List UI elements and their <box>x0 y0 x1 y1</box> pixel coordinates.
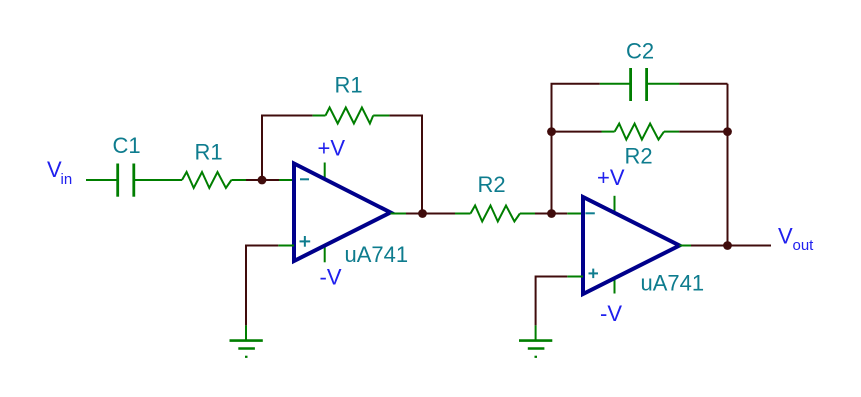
wire op1 output pin <box>391 213 407 215</box>
wire op2 non-inverting pin <box>567 276 583 278</box>
svg-text:R1: R1 <box>335 73 363 98</box>
wire R1fb right lead <box>373 115 389 117</box>
resistor R2 (feedback) <box>615 124 664 140</box>
op-amp U1 minus mark <box>300 178 309 180</box>
node D (left feedback junction at R2 row) <box>547 127 556 136</box>
wire R1fb left lead <box>313 115 326 117</box>
node E (right feedback junction at R2 row) <box>723 127 732 136</box>
ground 1 <box>230 341 263 357</box>
wire ground 2 pin stub <box>535 325 537 341</box>
wire feedback2 right riser down to output <box>727 84 729 246</box>
op-amp U2 triangle <box>583 197 680 294</box>
svg-text:out: out <box>793 237 815 254</box>
wire C2 right lead <box>647 83 680 85</box>
capacitor C2 <box>631 68 647 101</box>
wire op1 non-inverting pin <box>278 245 294 247</box>
resistor R1 (feedback) <box>326 108 374 124</box>
wire feedback left riser and top run <box>262 116 313 181</box>
op-amp U2 minus mark <box>585 212 594 214</box>
svg-text:C2: C2 <box>626 39 654 64</box>
op-amp U1 -V pin stub <box>324 246 326 262</box>
wire op2 non-inverting to ground riser <box>536 277 568 326</box>
svg-text:+V: +V <box>597 165 625 190</box>
svg-text:+V: +V <box>318 136 346 161</box>
op-amp U1 triangle <box>294 164 391 262</box>
op-amp U2 +V pin stub <box>614 196 616 212</box>
svg-text:in: in <box>61 171 73 188</box>
wire op1 non-inverting to ground riser <box>246 246 278 326</box>
wire op1 inverting pin <box>279 179 294 181</box>
ground 2 <box>519 341 552 357</box>
node B (op1 output junction) <box>418 209 427 218</box>
wire input node segment <box>246 179 279 181</box>
wire op1 output to R2 <box>406 213 455 215</box>
wire R2 left lead <box>455 213 471 215</box>
node A (op1 inverting input junction) <box>258 176 267 185</box>
wire op2 inverting pin <box>567 213 583 215</box>
svg-text:R1: R1 <box>195 140 223 165</box>
wire to op2 inverting node <box>535 213 567 215</box>
svg-text:C1: C1 <box>113 133 141 158</box>
svg-text:V: V <box>778 224 793 249</box>
svg-text:-V: -V <box>600 301 622 326</box>
svg-text:R2: R2 <box>625 144 653 169</box>
op-amp U2 plus mark <box>589 269 599 279</box>
svg-text:uA741: uA741 <box>345 242 409 267</box>
wire R1 right lead <box>231 179 246 181</box>
svg-text:R2: R2 <box>478 172 506 197</box>
op-amp U1 plus mark <box>300 236 311 247</box>
op-amp U1 +V pin stub <box>324 163 326 180</box>
wire R2fb right lead <box>664 131 679 133</box>
wire R2fb row left segment <box>552 131 602 133</box>
capacitor C1 <box>118 164 134 197</box>
op-amp U2 -V pin stub <box>614 279 616 294</box>
wire R2fb row right segment <box>679 131 727 133</box>
net label Vin <box>47 157 72 188</box>
resistor R2 (series) <box>471 206 520 222</box>
wire feedback right run and riser down to output <box>389 116 422 214</box>
wire op2 output pin <box>680 245 692 247</box>
wire C2 left lead <box>600 83 631 85</box>
resistor R1 (series input) <box>182 172 231 188</box>
net label Vout <box>778 224 814 255</box>
wire op2 output to Vout <box>691 245 771 247</box>
svg-text:uA741: uA741 <box>641 271 705 296</box>
wire R2 right lead <box>520 213 535 215</box>
svg-text:-V: -V <box>320 265 342 290</box>
wire ground 1 pin stub <box>245 325 247 341</box>
node F (op2 output junction) <box>723 241 732 250</box>
wire R2fb left lead <box>602 131 615 133</box>
wire C1 to R1 <box>134 179 182 181</box>
wire feedback2 left riser up to C2 row <box>552 84 600 214</box>
wire C2 right to right riser <box>679 83 727 85</box>
node C (op2 inverting input junction) <box>547 209 556 218</box>
wire Vin to C1 (left lead) <box>86 179 118 181</box>
